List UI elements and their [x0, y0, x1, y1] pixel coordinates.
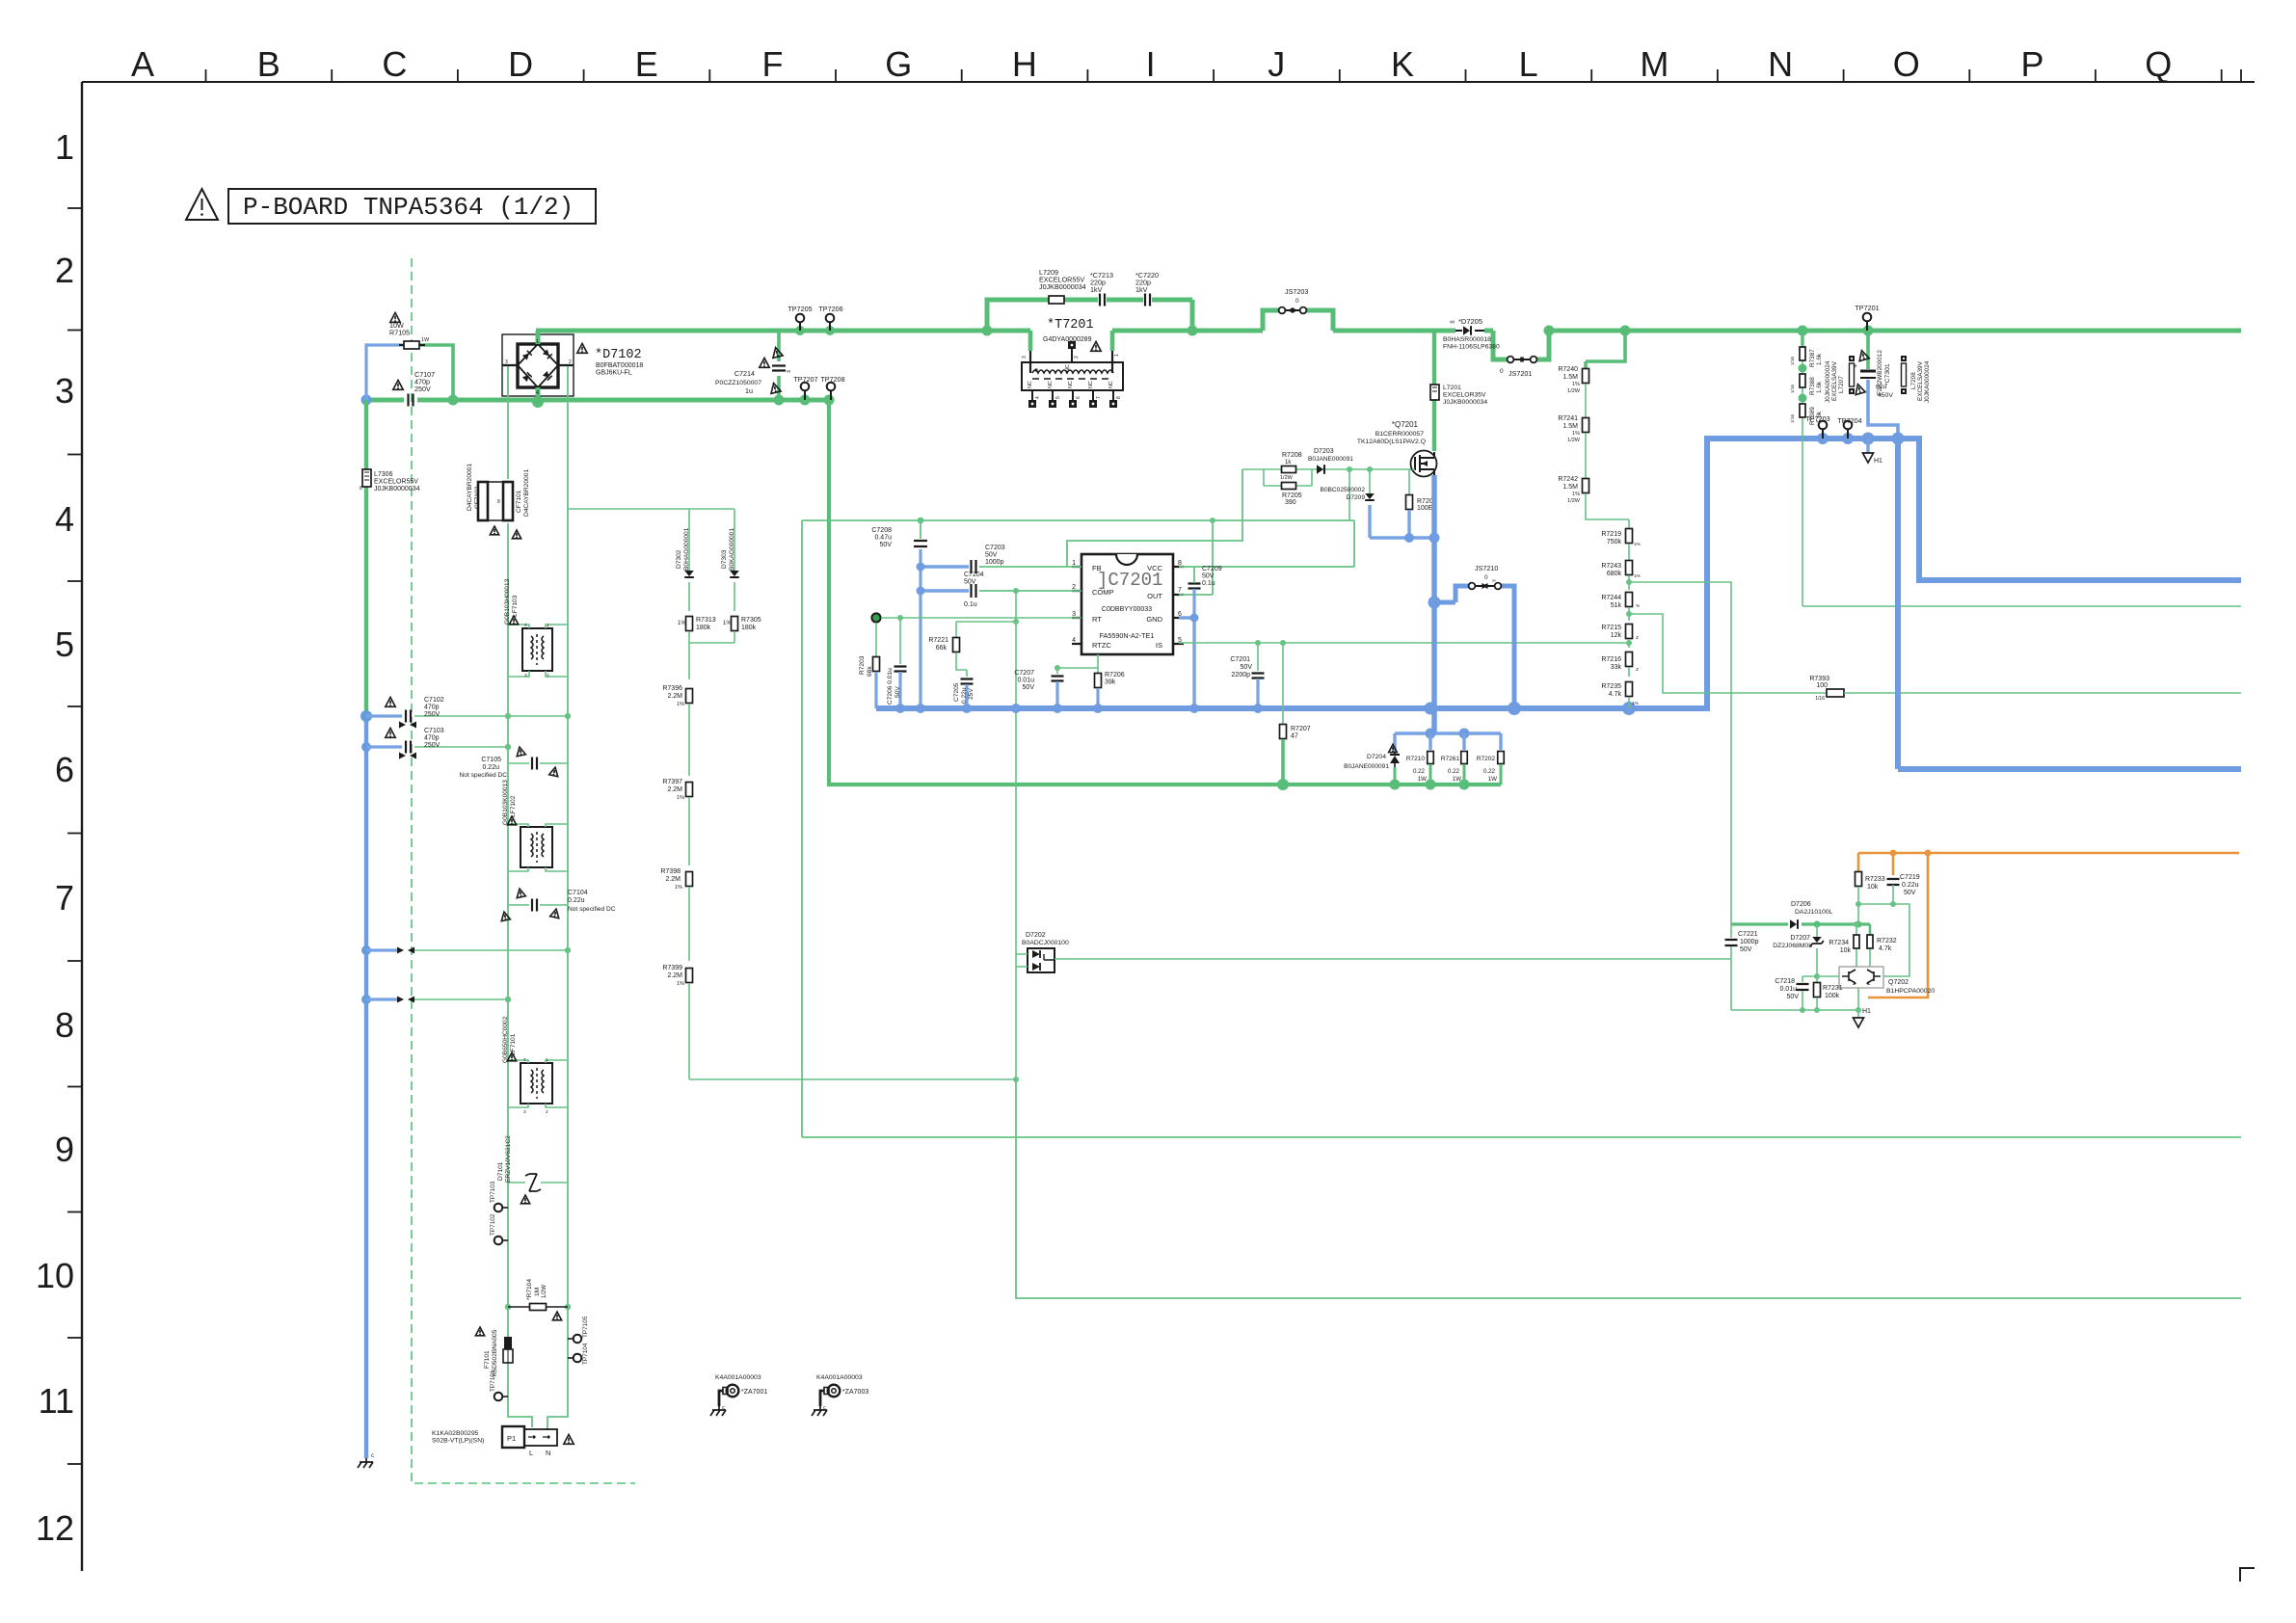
wire: interlink row 1037 [366, 998, 399, 1000]
svg-text:ERZV10V621C2: ERZV10V621C2 [505, 1135, 512, 1183]
svg-text:H: H [1012, 44, 1037, 84]
test point TP7101 [494, 1393, 503, 1401]
svg-text:L7208: L7208 [1910, 372, 1917, 389]
bottom-right corner mark [2240, 1568, 2255, 1582]
svg-text:R7313: R7313 [696, 617, 716, 624]
svg-text:NC: NC [1048, 381, 1054, 388]
svg-text:C7204: C7204 [964, 572, 984, 578]
inductor L7208 [1901, 356, 1907, 361]
diode D7203 [1317, 465, 1323, 474]
svg-text:3: 3 [523, 1109, 526, 1115]
svg-text:TP7104: TP7104 [582, 1343, 589, 1365]
svg-text:1%: 1% [677, 981, 684, 987]
svg-text:1%: 1% [1634, 542, 1642, 547]
svg-text:R7242: R7242 [1558, 476, 1578, 483]
wire: jumper JS7203 jog [1263, 310, 1333, 331]
svg-text:DA2J10100L: DA2J10100L [1795, 909, 1833, 916]
svg-text:L: L [529, 1449, 533, 1457]
capacitor C7220 [1145, 294, 1150, 306]
capacitor C7214 [777, 331, 781, 400]
svg-text:1%: 1% [1572, 492, 1580, 497]
transformer NC bottom pin5 [1052, 390, 1054, 402]
svg-text:H1: H1 [1874, 458, 1882, 465]
svg-text:R7207: R7207 [1291, 726, 1311, 732]
svg-text:D7302: D7302 [676, 549, 682, 569]
svg-text:CF7102: CF7102 [474, 486, 481, 509]
svg-text:50V: 50V [985, 552, 998, 559]
node: bus2 dots [361, 395, 372, 406]
svg-text:OUT: OUT [1147, 592, 1162, 600]
svg-text:LF7103: LF7103 [512, 595, 519, 617]
svg-text:TP7103: TP7103 [490, 1181, 496, 1203]
svg-text:F: F [762, 44, 784, 84]
svg-text:TP7201: TP7201 [1855, 304, 1879, 312]
svg-text:R7206: R7206 [1105, 672, 1125, 678]
jumper JS7210 [1434, 586, 1514, 708]
svg-text:TP7105: TP7105 [582, 1316, 589, 1338]
svg-text:10: 10 [36, 1256, 74, 1295]
svg-text:A: A [131, 44, 154, 84]
test point TP7204 [1844, 421, 1853, 430]
svg-text:Z: Z [1636, 635, 1639, 641]
svg-text:1/2W: 1/2W [1567, 498, 1581, 504]
svg-text:*R7104: *R7104 [526, 1279, 533, 1300]
capacitor C7102 [366, 714, 402, 717]
transistor pair Q7202 [1839, 967, 1883, 988]
resistor R7232 4.7k [1869, 924, 1872, 935]
svg-text:D7207: D7207 [1790, 935, 1810, 942]
svg-text:J0JKB0000034: J0JKB0000034 [1443, 399, 1487, 406]
svg-text:5: 5 [1055, 396, 1061, 399]
svg-text:K1KA02B00295: K1KA02B00295 [432, 1430, 479, 1437]
ground lug ZA7001 [727, 1385, 739, 1397]
svg-text:D4CAYBR20001: D4CAYBR20001 [467, 464, 473, 511]
resistor R7216 33k [1626, 652, 1633, 667]
svg-text:J0JKA0000024: J0JKA0000024 [1924, 360, 1931, 403]
wire: interlink row 986 [366, 948, 399, 951]
svg-text:0.22u: 0.22u [1902, 882, 1919, 889]
svg-text:JS7210: JS7210 [1475, 564, 1498, 572]
svg-text:2: 2 [1074, 356, 1080, 359]
svg-text:0: 0 [1295, 298, 1299, 305]
svg-text:Z: Z [1636, 667, 1639, 673]
svg-text:4: 4 [523, 1057, 526, 1063]
ruler column letters A-Q [131, 44, 2172, 84]
svg-text:7: 7 [55, 878, 74, 918]
svg-text:C0DBBYY00033: C0DBBYY00033 [1102, 606, 1152, 613]
test point TP7201 [1863, 313, 1872, 322]
wire: VCC harvest line y540 [802, 519, 1354, 521]
resistor R7399 2.2M [686, 969, 693, 983]
svg-text:33k: 33k [1611, 664, 1622, 671]
wire: orange PFC-on rail [1858, 852, 2239, 855]
wire: tap to x1796 column [1629, 582, 1731, 924]
svg-text:D7303: D7303 [721, 549, 728, 569]
zener D7207 [1816, 924, 1818, 937]
svg-text:F7101: F7101 [484, 1350, 491, 1369]
wire: long rail y1347 [1016, 1079, 2241, 1298]
svg-text:8: 8 [497, 499, 500, 505]
svg-text:IS: IS [1156, 641, 1162, 650]
capacitor C7301 82u 450V [1866, 331, 1870, 369]
svg-text:250V: 250V [424, 711, 441, 718]
wire: bus jog over L7209/C7213/C7220 [987, 300, 1192, 331]
svg-text:C7201: C7201 [1230, 656, 1250, 663]
svg-text:1kV: 1kV [1135, 285, 1148, 294]
svg-text:R7399: R7399 [662, 965, 682, 971]
wire: control gnd bottom [1731, 1009, 1858, 1011]
MOSFET Q7201 [1411, 451, 1437, 477]
svg-text:C7105: C7105 [481, 757, 501, 763]
test point TP7207 [801, 383, 810, 391]
svg-text:68k: 68k [867, 666, 873, 677]
svg-text:470p: 470p [424, 735, 440, 742]
svg-text:R7205: R7205 [1282, 492, 1302, 499]
svg-text:450V: 450V [1878, 392, 1893, 399]
svg-text:B0HAG000001: B0HAG000001 [683, 527, 690, 571]
svg-text:NC: NC [1088, 381, 1094, 388]
resistor R7261 [1462, 733, 1465, 750]
svg-text:0.01u: 0.01u [1779, 986, 1797, 993]
svg-text:R7232: R7232 [1877, 938, 1897, 945]
test point TP7205 [795, 326, 805, 335]
resistor R7241 1.5M [1583, 418, 1589, 433]
svg-text:K4A001A00003: K4A001A00003 [816, 1374, 863, 1381]
resistor R7205 390 [1282, 483, 1296, 490]
svg-text:0.01u: 0.01u [1017, 677, 1034, 683]
svg-text:66k: 66k [936, 645, 948, 652]
diode D7209 [1369, 469, 1371, 493]
svg-text:2.2M: 2.2M [667, 972, 682, 979]
resistor R7210 [1428, 733, 1431, 750]
varistor D7101 [508, 1182, 568, 1184]
svg-text:R7219: R7219 [1601, 531, 1621, 538]
svg-text:1k: 1k [1285, 460, 1292, 466]
svg-text:R7397: R7397 [662, 779, 682, 785]
resistor R7243 680k [1626, 561, 1633, 575]
wire: COMP column down to D7202 [1015, 591, 1017, 1079]
svg-text:1: 1 [1114, 354, 1120, 357]
svg-text:0.22u: 0.22u [961, 687, 968, 704]
resistor R7206 39k [1097, 668, 1099, 674]
svg-text:47: 47 [1291, 733, 1298, 740]
svg-text:C7104: C7104 [568, 890, 588, 896]
svg-text:TP7102: TP7102 [490, 1213, 496, 1236]
svg-text:Not specified DC: Not specified DC [568, 906, 616, 913]
svg-text:R7305: R7305 [741, 617, 761, 624]
svg-text:3: 3 [524, 673, 527, 678]
svg-text:JS7203: JS7203 [1285, 287, 1308, 296]
svg-text:R7243: R7243 [1601, 563, 1621, 570]
svg-text:NC: NC [1065, 364, 1071, 372]
capacitor C7103 [366, 745, 402, 748]
node: EMI dots [505, 713, 511, 719]
svg-text:39k: 39k [1105, 679, 1116, 686]
fuse F7101 [504, 1337, 512, 1349]
svg-text:1%: 1% [677, 702, 684, 707]
svg-text:R7105: R7105 [389, 329, 410, 337]
svg-text:TK12A60D(LS1PAV2.Q: TK12A60D(LS1PAV2.Q [1357, 439, 1426, 445]
svg-text:B1CERR000057: B1CERR000057 [1375, 431, 1424, 438]
svg-text:D7206: D7206 [1791, 901, 1811, 908]
jumper JS7203 [1279, 307, 1286, 314]
svg-text:100E: 100E [1417, 505, 1433, 512]
svg-text:50V: 50V [1740, 946, 1752, 953]
svg-text:250V: 250V [424, 742, 441, 749]
svg-text:R7203: R7203 [859, 655, 866, 675]
svg-text:O: O [1893, 44, 1920, 84]
diode D7206 [1790, 919, 1797, 929]
node: bus junction dots [982, 326, 993, 336]
svg-text:K4A001A00003: K4A001A00003 [715, 1374, 761, 1381]
svg-text:1%: 1% [1632, 701, 1640, 706]
svg-text:C7203: C7203 [985, 545, 1005, 551]
test point RT node [871, 613, 880, 622]
wire: tap to R7393 [1629, 614, 1826, 693]
ruler row ticks [67, 208, 82, 1464]
svg-text:0.22: 0.22 [1448, 768, 1460, 775]
wire: left feeder down from bus2 [364, 400, 368, 716]
border ruler left line [81, 82, 83, 1571]
svg-text:B0BC02500002: B0BC02500002 [1320, 487, 1365, 493]
capacitor C7209 [1188, 584, 1201, 589]
svg-text:0: 0 [1500, 368, 1504, 375]
resistor R7235 4.7k [1626, 682, 1633, 697]
svg-text:12k: 12k [1611, 632, 1622, 639]
svg-text:B0KAG000001: B0KAG000001 [729, 528, 735, 571]
svg-text:C7209: C7209 [1202, 566, 1222, 572]
resistor R7208 [1282, 466, 1296, 473]
svg-text:S02B-VT(LP)(SN): S02B-VT(LP)(SN) [432, 1438, 484, 1445]
resistor R7240 1.5M [1583, 369, 1589, 384]
resistor R7387 1.6k [1800, 347, 1805, 360]
svg-text:EXCELOR35V: EXCELOR35V [1443, 392, 1486, 399]
svg-text:*T7201: *T7201 [1047, 318, 1094, 333]
svg-text:C: C [382, 44, 407, 84]
svg-text:390: 390 [1285, 499, 1296, 506]
svg-text:1W: 1W [421, 337, 430, 343]
svg-text:B: B [257, 44, 280, 84]
svg-text:J0JKB0000034: J0JKB0000034 [1039, 282, 1086, 291]
capacitor C7201 2200p [1257, 643, 1259, 671]
svg-text:3: 3 [505, 359, 508, 365]
wire: RT line [881, 617, 1081, 619]
svg-text:NC: NC [1108, 381, 1114, 388]
svg-text:G0B103H00013: G0B103H00013 [504, 578, 511, 625]
svg-text:0.22: 0.22 [1483, 768, 1496, 775]
border ruler top line [82, 81, 2255, 83]
svg-text:R7240: R7240 [1558, 366, 1578, 373]
svg-text:1: 1 [547, 623, 549, 628]
transformer NC bottom pin8 [1112, 390, 1114, 402]
wire: rectified bus (row3) [366, 398, 829, 403]
resistor R7207 47 [1282, 643, 1284, 725]
svg-text:9: 9 [55, 1130, 74, 1169]
svg-text:c: c [722, 1405, 725, 1411]
test point TP7203 [1819, 421, 1828, 430]
transformer NC bottom pin4 [1031, 390, 1033, 402]
test point TP7208 [827, 383, 836, 391]
heatsink H1 right [1866, 439, 1869, 453]
svg-text:R7210: R7210 [1406, 756, 1426, 762]
svg-text:2: 2 [546, 1109, 548, 1115]
svg-text:TP7208: TP7208 [820, 375, 844, 384]
svg-text:1/2W: 1/2W [1567, 438, 1581, 443]
svg-text:LF7101: LF7101 [510, 1033, 517, 1055]
svg-text:TP7204: TP7204 [1837, 416, 1861, 425]
svg-text:0.22u: 0.22u [482, 764, 499, 771]
diode D7205 fuse-link [1463, 326, 1470, 335]
svg-text:∞: ∞ [1492, 578, 1496, 584]
svg-text:C7102: C7102 [424, 697, 444, 704]
svg-text:1: 1 [536, 339, 539, 345]
svg-text:FNH-1106SLP6380: FNH-1106SLP6380 [1443, 344, 1500, 351]
capacitor C7205 [966, 670, 968, 677]
svg-text:1/16: 1/16 [1790, 357, 1795, 365]
wire: aux line via D7206 [1731, 922, 1788, 925]
svg-text:L: L [1519, 44, 1538, 84]
svg-text:1kV: 1kV [1090, 285, 1103, 294]
svg-text:4.7k: 4.7k [1609, 691, 1622, 698]
svg-text:7: 7 [1096, 396, 1102, 399]
resistor R7105 10W [366, 345, 403, 400]
wire: net to D7202 column [689, 1078, 1016, 1080]
wire: blue branch down to y798 [1898, 439, 2241, 769]
svg-text:180k: 180k [741, 625, 757, 631]
svg-text:1: 1 [55, 127, 74, 167]
svg-text:DZ2J068M0L: DZ2J068M0L [1773, 943, 1812, 949]
svg-text:C7103: C7103 [424, 728, 444, 734]
svg-text:8: 8 [55, 1005, 74, 1045]
ruler column ticks [206, 69, 2242, 83]
svg-text:G: G [885, 44, 912, 84]
ground lug ZA7003 [828, 1385, 841, 1397]
wire: x832 feeder down to y1180 [801, 520, 803, 1137]
svg-text:1.5M: 1.5M [1562, 423, 1578, 430]
line filter LF7102 [521, 827, 552, 867]
resistor R7396 2.2M [686, 689, 693, 704]
diode D7303 [730, 571, 739, 576]
wire: aux VCC line y995 [1055, 958, 1731, 960]
wire: JS7201 step-down [1493, 331, 1549, 359]
test point TP7102 [494, 1237, 503, 1245]
test point TP7105 [574, 1335, 582, 1344]
svg-text:750k: 750k [1607, 539, 1622, 545]
svg-text:4: 4 [55, 499, 74, 539]
wire: sense resistor row [1395, 732, 1501, 734]
svg-text:C7218: C7218 [1775, 978, 1795, 985]
svg-text:G4DYA0000289: G4DYA0000289 [1043, 336, 1092, 343]
node: gnd bus dots [895, 704, 905, 713]
resistor R7393 100 [1827, 689, 1844, 697]
svg-text:H1: H1 [1862, 1008, 1871, 1015]
inductor L7207 [1849, 356, 1855, 361]
svg-text:4: 4 [524, 623, 527, 628]
ground chassis left column [358, 1458, 373, 1468]
svg-text:Q: Q [2145, 44, 2172, 84]
wire: long output rail y629 [1802, 605, 2241, 607]
svg-text:470p: 470p [424, 705, 440, 711]
svg-text:B0JANE000091: B0JANE000091 [1344, 763, 1389, 770]
svg-text:*C7301: *C7301 [1884, 363, 1891, 386]
svg-text:50V: 50V [1787, 994, 1800, 1000]
svg-text:50V: 50V [880, 542, 893, 548]
svg-text:TP7203: TP7203 [1805, 414, 1829, 423]
svg-text:R7387: R7387 [1809, 349, 1816, 367]
svg-text:P-BOARD TNPA5364 (1/2): P-BOARD TNPA5364 (1/2) [243, 193, 574, 222]
svg-text:N: N [546, 1449, 550, 1457]
title box P-BOARD TNPA5364 (1/2) [228, 189, 596, 224]
svg-text:R7396: R7396 [662, 685, 682, 692]
svg-text:RT: RT [1092, 615, 1102, 624]
svg-text:R7221: R7221 [928, 637, 948, 644]
svg-text:L7306: L7306 [374, 471, 393, 478]
svg-text:R7231: R7231 [1823, 985, 1843, 992]
svg-text:2.2M: 2.2M [665, 876, 681, 883]
test point TP7103 [494, 1204, 503, 1212]
svg-text:D: D [508, 44, 533, 84]
diode D7204 [1393, 733, 1396, 753]
inductor L7306 [362, 469, 371, 487]
resistor R7209 100E [1408, 469, 1410, 495]
svg-text:FB: FB [1092, 564, 1102, 572]
svg-text:J0JKA0000024: J0JKA0000024 [1825, 360, 1831, 403]
svg-text:D7202: D7202 [1026, 932, 1046, 939]
svg-text:*ZA7001: *ZA7001 [741, 1389, 767, 1396]
choke CF7102 [483, 482, 508, 520]
svg-text:R7388: R7388 [1809, 377, 1816, 395]
svg-text:R7208: R7208 [1282, 452, 1302, 459]
svg-text:*D7102: *D7102 [595, 348, 642, 362]
svg-text:C7214: C7214 [734, 369, 755, 378]
svg-text:10k: 10k [1867, 884, 1879, 891]
svg-text:2: 2 [547, 673, 549, 678]
svg-text:1/2W: 1/2W [1280, 475, 1294, 481]
svg-text:50V: 50V [1023, 684, 1035, 691]
svg-text:TP7205: TP7205 [788, 305, 812, 313]
svg-text:8: 8 [1116, 396, 1122, 399]
svg-text:M: M [1640, 44, 1669, 84]
svg-text:250V: 250V [414, 385, 431, 393]
svg-text:D4CAYBR20001: D4CAYBR20001 [523, 469, 530, 517]
svg-text:25V: 25V [968, 688, 974, 700]
transformer T7201 [1030, 331, 1112, 351]
svg-text:10k: 10k [1840, 947, 1852, 954]
svg-text:1W: 1W [1418, 776, 1427, 783]
node: blue taps [360, 710, 372, 722]
svg-text:D7209: D7209 [1347, 494, 1366, 501]
svg-text:EXCELOR55V: EXCELOR55V [374, 479, 418, 486]
wire: blue rail y455 taps [1817, 433, 1829, 444]
svg-text:2.2M: 2.2M [667, 693, 682, 700]
svg-text:1%: 1% [723, 621, 732, 626]
svg-text:1W: 1W [1488, 776, 1497, 783]
svg-text:2.2M: 2.2M [667, 786, 682, 793]
svg-text:0.1u: 0.1u [964, 601, 977, 608]
resistor R7398 2.2M [686, 872, 693, 887]
svg-text:1000p: 1000p [1740, 939, 1759, 945]
wire: GND pin6 to bus [1179, 618, 1194, 708]
svg-text:TP7206: TP7206 [818, 305, 842, 313]
capacitor C7203 [972, 560, 976, 573]
svg-text:6: 6 [1076, 396, 1081, 399]
wire: RTZC loop [1057, 654, 1098, 674]
svg-text:2: 2 [55, 251, 74, 290]
svg-text:100k: 100k [1825, 993, 1840, 999]
svg-text:50V: 50V [1202, 573, 1215, 580]
svg-text:P1: P1 [507, 1434, 516, 1443]
svg-text:1M: 1M [534, 1288, 541, 1296]
